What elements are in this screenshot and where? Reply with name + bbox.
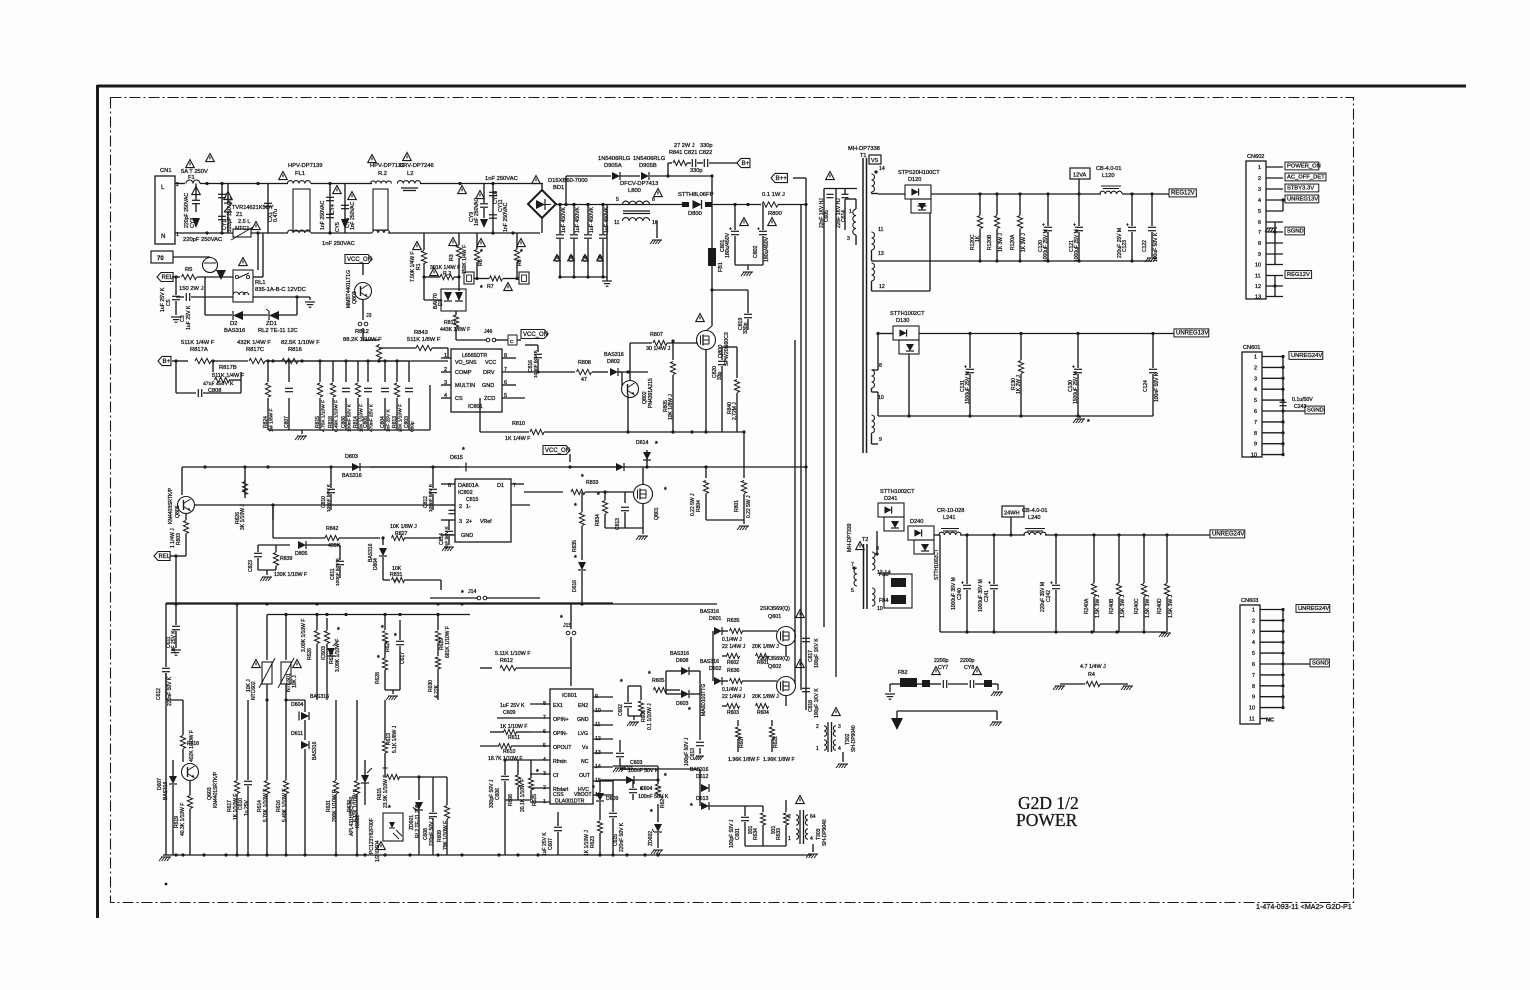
svg-text:C606: C606	[495, 788, 501, 800]
ground	[301, 430, 303, 434]
svg-text:R240D: R240D	[1157, 598, 1163, 614]
diode D802 BAS316	[610, 368, 618, 376]
svg-text:23.9K 1/10W F: 23.9K 1/10W F	[383, 775, 389, 808]
resistor R808	[577, 369, 592, 374]
svg-text:PC123Y82F00F: PC123Y82F00F	[369, 818, 375, 854]
ground fb2	[889, 684, 891, 692]
resistor R603	[785, 695, 787, 706]
svg-text:CSS: CSS	[553, 792, 564, 798]
capacitor C608	[432, 777, 434, 810]
svg-text:0.1 1W J: 0.1 1W J	[762, 192, 785, 198]
inductor L241	[939, 532, 961, 535]
svg-text:C124: C124	[1143, 380, 1149, 392]
svg-text:200K 1/10W F: 200K 1/10W F	[332, 790, 338, 822]
resistor R807	[629, 343, 631, 380]
svg-text:D615: D615	[450, 455, 463, 461]
svg-text:100pF 1KV K: 100pF 1KV K	[814, 688, 820, 718]
svg-text:C241: C241	[984, 590, 990, 602]
resistor R8 vertical	[516, 233, 518, 249]
svg-text:1uF 25V K: 1uF 25V K	[171, 630, 177, 654]
svg-text:R827: R827	[395, 531, 408, 537]
svg-text:R628: R628	[375, 672, 381, 684]
wire fb links	[878, 575, 890, 577]
wire mid rail 614	[267, 614, 470, 616]
svg-text:CY5: CY5	[335, 222, 341, 232]
wire 13V rail	[878, 333, 893, 335]
svg-text:R817C: R817C	[246, 347, 264, 353]
svg-text:47: 47	[581, 377, 587, 383]
flag REL	[157, 273, 173, 282]
svg-text:N: N	[161, 233, 165, 240]
svg-text:R812: R812	[355, 329, 369, 335]
svg-text:R627: R627	[385, 640, 391, 652]
capacitor C123	[1131, 194, 1133, 226]
svg-text:2: 2	[1258, 176, 1261, 182]
svg-text:12VA: 12VA	[1073, 173, 1087, 179]
svg-text:2: 2	[788, 814, 791, 820]
svg-text:MH-DP7338: MH-DP7338	[848, 146, 880, 152]
svg-text:1nF 250VAC: 1nF 250VAC	[322, 241, 355, 247]
svg-text:C240: C240	[957, 588, 963, 600]
svg-text:R814: R814	[353, 416, 359, 428]
resistor R120C	[979, 194, 981, 215]
svg-text:6: 6	[1252, 662, 1255, 668]
svg-text:R803: R803	[176, 533, 182, 545]
diode D609	[599, 780, 601, 792]
svg-text:C5: C5	[166, 299, 172, 306]
wire	[363, 339, 379, 341]
wire	[175, 556, 177, 604]
wire IC801 pin stubs	[441, 357, 451, 359]
wire 855 ext	[505, 854, 766, 856]
ground	[1079, 416, 1081, 418]
wire Q800 source down	[705, 350, 707, 432]
thyristor IC603	[330, 640, 332, 648]
svg-text:10K 1/8W J: 10K 1/8W J	[668, 394, 674, 420]
svg-text:C602: C602	[618, 704, 624, 716]
wire pin12 line	[929, 213, 931, 291]
snubber C805 C814 top	[824, 188, 857, 190]
column R617	[236, 604, 238, 780]
diode D805	[298, 541, 306, 549]
svg-text:D616: D616	[572, 580, 578, 592]
arrow row	[896, 711, 898, 718]
svg-text:BAS316: BAS316	[224, 328, 245, 334]
svg-text:T2: T2	[862, 537, 868, 543]
svg-text:+: +	[1126, 223, 1129, 229]
svg-text:100nF 50V K: 100nF 50V K	[533, 349, 539, 378]
diode D120 STPS20H100CT	[905, 185, 931, 199]
wire ZCD return	[479, 398, 481, 432]
zener ZD1	[243, 314, 268, 316]
svg-text:*: *	[520, 249, 523, 256]
svg-text:R4: R4	[1088, 672, 1095, 678]
svg-text:6: 6	[1254, 409, 1257, 415]
inductor L240	[1024, 532, 1046, 535]
resistor R812 vertical	[340, 360, 379, 362]
svg-text:NTC1: NTC1	[235, 226, 250, 232]
box 12VA	[1070, 168, 1090, 179]
node box C	[508, 335, 517, 345]
svg-text:330p: 330p	[690, 168, 702, 174]
svg-text:3K 1/10W J: 3K 1/10W J	[240, 504, 246, 530]
diode D616	[578, 562, 586, 570]
svg-text:1: 1	[1258, 165, 1261, 171]
svg-text:D240: D240	[910, 519, 923, 525]
column R613 R615	[384, 700, 386, 740]
svg-text:4.75K 1/10W F: 4.75K 1/10W F	[321, 400, 327, 432]
svg-text:C808: C808	[208, 388, 221, 394]
thermistor NTC601	[285, 615, 287, 661]
svg-text:Z1: Z1	[236, 212, 243, 218]
svg-text:STTH1002CT: STTH1002CT	[934, 549, 940, 580]
svg-text:R842: R842	[326, 526, 339, 532]
resistor R839	[275, 545, 277, 552]
resistor R604	[756, 703, 769, 708]
svg-text:STTH8L06FP: STTH8L06FP	[678, 192, 714, 198]
svg-text:R603: R603	[727, 710, 739, 716]
ground main	[165, 603, 167, 855]
svg-text:R6: R6	[478, 259, 484, 266]
svg-text:1uF 25V K: 1uF 25V K	[542, 832, 548, 856]
svg-text:3: 3	[459, 519, 462, 525]
transistor Q803	[362, 263, 364, 275]
svg-text:79K 1/10W F: 79K 1/10W F	[443, 821, 449, 850]
svg-text:L240: L240	[1028, 515, 1040, 521]
resistor R601	[756, 653, 769, 658]
svg-text:R240C: R240C	[1134, 598, 1140, 614]
svg-text:C3: C3	[180, 315, 186, 322]
svg-text:13: 13	[1255, 295, 1261, 301]
svg-text:J46: J46	[484, 329, 492, 335]
wire cap bottom bus	[560, 276, 607, 278]
resistor R120A	[1019, 194, 1021, 215]
svg-text:402K 1/10W F: 402K 1/10W F	[189, 730, 195, 762]
svg-text:D802: D802	[607, 359, 620, 365]
svg-text:220pF 50V J: 220pF 50V J	[429, 817, 435, 846]
svg-text:1nF 250VAC: 1nF 250VAC	[350, 201, 356, 230]
svg-text:*: *	[560, 615, 563, 622]
svg-text:3.09K 1/10W F: 3.09K 1/10W F	[301, 619, 307, 652]
T2 secondary windings	[872, 552, 875, 570]
wire gnd rail	[940, 631, 1166, 633]
svg-text:*: *	[462, 447, 465, 454]
ferrite bead FB3	[891, 578, 906, 587]
ferrite bead FB4	[891, 595, 906, 604]
wire N rail	[175, 232, 233, 234]
capacitor C1 C2 C4 C6 bank	[559, 205, 561, 235]
svg-text:UNREG24V: UNREG24V	[1298, 606, 1329, 612]
svg-text:5: 5	[851, 588, 854, 594]
svg-text:1nF 250VAC: 1nF 250VAC	[320, 200, 326, 230]
svg-text:C617: C617	[400, 652, 406, 664]
control RC cluster under B+ rail	[267, 361, 269, 382]
capacitor C818	[805, 677, 807, 683]
svg-text:1.5K 3W J: 1.5K 3W J	[1168, 594, 1174, 618]
svg-text:0.1/4W J: 0.1/4W J	[722, 637, 742, 643]
capacitor C121	[1078, 194, 1080, 226]
svg-text:POWER_ON: POWER_ON	[1287, 164, 1321, 170]
resistor R624	[657, 766, 659, 775]
svg-text:47nF 450V K: 47nF 450V K	[203, 381, 234, 387]
resistor R633	[785, 806, 787, 812]
svg-text:CY8: CY8	[964, 665, 974, 671]
svg-text:+: +	[1042, 223, 1045, 229]
svg-text:D120: D120	[908, 177, 921, 183]
resistor R817B loop	[212, 361, 214, 372]
svg-text:BD1: BD1	[553, 185, 564, 191]
svg-text:OUT: OUT	[579, 773, 591, 779]
capacitor C130	[1077, 334, 1079, 369]
svg-text:D2: D2	[230, 321, 237, 327]
svg-text:VBOOT: VBOOT	[574, 792, 592, 798]
svg-text:R834: R834	[595, 514, 601, 526]
svg-text:1 1/4W J: 1 1/4W J	[170, 528, 176, 548]
svg-text:330pF 50V J: 330pF 50V J	[489, 779, 495, 808]
svg-text:*: *	[664, 487, 667, 494]
svg-text:IC602: IC602	[355, 814, 361, 828]
svg-text:R604: R604	[757, 710, 769, 716]
svg-text:VCC_ON: VCC_ON	[347, 257, 372, 263]
svg-text:SGND: SGND	[1287, 229, 1304, 235]
wire vref	[449, 519, 530, 521]
svg-text:1-474-093-11 <MA2> G2D-P1: 1-474-093-11 <MA2> G2D-P1	[1256, 902, 1352, 911]
svg-text:*: *	[688, 707, 691, 714]
svg-text:+: +	[1072, 365, 1075, 371]
capacitor C240	[966, 535, 968, 584]
pins IC802	[441, 483, 455, 485]
svg-text:FB1: FB1	[718, 262, 724, 272]
svg-text:D604: D604	[291, 702, 304, 708]
svg-text:R636: R636	[727, 668, 740, 674]
column R632	[356, 700, 358, 780]
svg-text:UNREG13V: UNREG13V	[1176, 331, 1208, 337]
diode D905A D905B row	[566, 175, 611, 177]
svg-text:12: 12	[879, 284, 885, 290]
wire VCC flag 2	[521, 330, 548, 339]
wire bus 801	[800, 178, 802, 695]
transistor Q601	[777, 627, 796, 646]
wire DC rail from bridge	[556, 204, 620, 206]
svg-text:SH-DP9040: SH-DP9040	[822, 819, 828, 846]
wire	[1122, 193, 1169, 195]
svg-text:R625: R625	[532, 794, 538, 806]
line filter FL1	[287, 181, 310, 184]
svg-text:1uF 450VK: 1uF 450VK	[561, 207, 567, 233]
connector CN602	[1246, 161, 1266, 299]
svg-text:1: 1	[816, 746, 819, 752]
svg-text:R817A: R817A	[190, 347, 208, 353]
resistor R826	[195, 504, 245, 506]
svg-text:9: 9	[879, 437, 882, 443]
svg-text:FB2: FB2	[898, 670, 908, 676]
svg-text:20K 1/8W J: 20K 1/8W J	[752, 644, 779, 650]
svg-text:C802: C802	[753, 245, 759, 258]
svg-text:R626: R626	[307, 648, 313, 660]
resistor R816	[282, 358, 298, 363]
svg-text:CR-10-028: CR-10-028	[937, 508, 964, 514]
diode D240	[908, 526, 934, 540]
svg-text:D805: D805	[295, 551, 308, 557]
resistor R843	[416, 345, 432, 350]
svg-text:10: 10	[1251, 453, 1257, 459]
inductor L2	[397, 181, 420, 184]
wire	[200, 183, 288, 185]
ground	[1132, 254, 1152, 256]
svg-text:3: 3	[1258, 187, 1261, 193]
ground sgnd	[1267, 227, 1277, 229]
svg-text:J15: J15	[563, 623, 571, 629]
jumper J14	[430, 597, 478, 599]
svg-text:C612: C612	[156, 688, 162, 700]
resistor R811	[455, 311, 457, 315]
svg-text:511K 1/4W F: 511K 1/4W F	[212, 373, 245, 379]
svg-text:R843: R843	[414, 330, 428, 336]
capacitor C816	[537, 345, 539, 352]
svg-text:BAS316: BAS316	[312, 741, 318, 760]
svg-text:14: 14	[879, 166, 885, 172]
wire	[931, 193, 1101, 195]
svg-text:R622: R622	[773, 736, 779, 748]
connector CN603	[1240, 605, 1260, 724]
svg-text:C122: C122	[1142, 240, 1148, 252]
capacitor C808	[176, 392, 196, 394]
svg-text:C613: C613	[690, 748, 696, 760]
wire rail 467	[182, 466, 460, 468]
svg-text:D608: D608	[676, 658, 689, 664]
svg-text:R813: R813	[392, 416, 398, 428]
svg-text:11: 11	[878, 227, 883, 233]
wire bottom bus	[745, 845, 786, 847]
capacitor C607	[557, 812, 559, 826]
diode D614	[646, 450, 648, 462]
svg-text:1.5K 3W J: 1.5K 3W J	[1145, 594, 1151, 618]
svg-text:IC601: IC601	[562, 693, 577, 699]
diode D800 STTH8L06FP	[620, 204, 682, 206]
transformer T1 core	[862, 158, 864, 453]
diode D805 loop	[250, 540, 350, 578]
capacitor C603	[619, 726, 621, 744]
column R631	[335, 700, 337, 780]
svg-text:8: 8	[652, 197, 655, 203]
flag VCC_ON 3	[543, 446, 570, 455]
net UNREG24V cn603	[1296, 605, 1330, 613]
svg-text:C607: C607	[548, 838, 554, 850]
svg-text:FL1: FL1	[295, 171, 305, 177]
svg-text:BAS316: BAS316	[342, 473, 362, 479]
svg-text:1000uF 25V M: 1000uF 25V M	[1074, 229, 1080, 262]
transformer T303	[799, 810, 801, 844]
wire Q800 gate	[697, 336, 699, 343]
svg-text:NC: NC	[581, 759, 589, 765]
wire Q801 row	[524, 491, 563, 493]
wire	[251, 232, 288, 234]
svg-text:8: 8	[1254, 431, 1257, 437]
svg-text:931: 931	[748, 825, 754, 834]
svg-text:D612: D612	[696, 774, 709, 780]
svg-text:D905A: D905A	[604, 163, 622, 169]
svg-text:1uF 25V K: 1uF 25V K	[186, 305, 192, 330]
svg-text:+: +	[988, 581, 991, 587]
svg-text:R605: R605	[652, 678, 665, 684]
svg-text:*: *	[394, 633, 397, 640]
svg-text:2: 2	[1254, 365, 1257, 371]
svg-text:*: *	[648, 671, 651, 678]
shunt reg IC602	[364, 760, 366, 775]
svg-text:BAS316: BAS316	[368, 543, 374, 562]
svg-text:3: 3	[1254, 376, 1257, 382]
resistor R634	[762, 806, 764, 812]
svg-text:681K 1/10W F: 681K 1/10W F	[445, 626, 451, 658]
svg-text:BAS316: BAS316	[163, 781, 169, 800]
svg-text:5: 5	[1252, 651, 1255, 657]
svg-text:IC603: IC603	[321, 646, 327, 660]
svg-text:*: *	[597, 492, 600, 499]
wire	[311, 183, 372, 185]
row Q602	[712, 631, 714, 681]
svg-text:CY9: CY9	[469, 212, 475, 222]
svg-text:4: 4	[1252, 640, 1255, 646]
svg-text:SGND: SGND	[1312, 661, 1329, 667]
wire N to bridge	[440, 232, 540, 234]
svg-text:20K 1/10W F: 20K 1/10W F	[398, 404, 404, 432]
svg-text:*: *	[574, 503, 577, 510]
svg-text:5: 5	[1258, 209, 1261, 215]
wire MULTIN to cluster	[429, 385, 431, 430]
svg-text:1.5K 3W J: 1.5K 3W J	[1120, 594, 1126, 618]
svg-text:1: 1	[849, 209, 852, 215]
net VS box	[869, 155, 881, 164]
arrow	[216, 270, 226, 280]
svg-text:750K 1/4W F: 750K 1/4W F	[462, 245, 468, 274]
svg-text:220nF 50V K: 220nF 50V K	[619, 822, 625, 852]
svg-text:COMP: COMP	[455, 370, 472, 376]
svg-text:64: 64	[810, 814, 816, 820]
ground Q801	[642, 528, 644, 534]
svg-text:0.22 5W J: 0.22 5W J	[690, 493, 696, 516]
svg-text:D602: D602	[709, 666, 722, 672]
ferrite bead FB2	[890, 683, 900, 685]
svg-text:HPV-DP7139: HPV-DP7139	[288, 163, 322, 169]
svg-text:5.1K 1/8W J: 5.1K 1/8W J	[392, 725, 398, 753]
svg-text:MH-DP7339: MH-DP7339	[847, 523, 853, 552]
net UNREG24V cn601	[1289, 352, 1323, 360]
wire T1 p8 to D130	[876, 332, 879, 335]
svg-text:REG12V: REG12V	[1171, 191, 1195, 197]
svg-text:L: L	[161, 184, 165, 191]
svg-text:100pF 1KV K: 100pF 1KV K	[814, 638, 820, 668]
svg-text:+: +	[1073, 223, 1076, 229]
svg-text:L241: L241	[943, 515, 955, 521]
resistor R605	[613, 696, 628, 698]
resistor R842	[272, 505, 274, 520]
svg-text:R804: R804	[696, 500, 702, 512]
svg-text:J14: J14	[468, 589, 476, 595]
box 24WH	[1002, 506, 1024, 517]
svg-text:*: *	[480, 285, 483, 292]
net UNREG24V	[1210, 530, 1245, 538]
svg-text:BAS316: BAS316	[690, 767, 709, 773]
capacitor CY4 CY5 CY6	[329, 184, 331, 234]
svg-text:RL1: RL1	[255, 280, 266, 286]
node box B	[464, 272, 474, 284]
svg-text:5.11K 1/10W F: 5.11K 1/10W F	[495, 651, 531, 657]
wire	[257, 233, 259, 270]
svg-text:Q602: Q602	[768, 664, 781, 670]
svg-text:*: *	[480, 249, 483, 256]
capacitor CX1	[267, 184, 269, 234]
capacitor C802	[762, 205, 764, 231]
